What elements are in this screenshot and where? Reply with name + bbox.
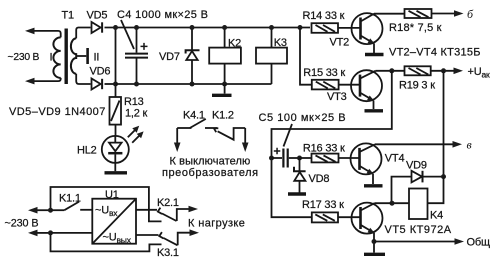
output arrow v xyxy=(453,141,463,148)
switch K2.1 xyxy=(136,208,191,221)
svg-text:VD9: VD9 xyxy=(406,160,427,172)
arrow to converter switch right xyxy=(242,128,249,152)
svg-text:II: II xyxy=(94,52,100,64)
wire top rail xyxy=(105,27,311,29)
resistor R16 xyxy=(312,154,339,163)
svg-text:K1.2: K1.2 xyxy=(212,110,234,122)
svg-text:K3.1: K3.1 xyxy=(157,247,179,259)
node K3 top xyxy=(269,25,274,30)
svg-text:K4.1: K4.1 xyxy=(183,110,205,122)
svg-text:К нагрузке: К нагрузке xyxy=(188,217,245,229)
svg-text:VT4: VT4 xyxy=(385,153,405,165)
ground at VT4 xyxy=(364,184,383,187)
node VT3 collector xyxy=(389,68,394,73)
wire U1 loop top xyxy=(51,187,162,221)
ground at VD8 xyxy=(288,192,306,195)
switch K1.2 xyxy=(205,128,245,140)
ground at VT3 xyxy=(365,109,384,112)
input arrow top left xyxy=(25,28,59,35)
node C4 top xyxy=(134,25,139,30)
svg-text:VT2: VT2 xyxy=(330,36,350,48)
output arrow b xyxy=(432,10,464,17)
svg-text:R19 3 к: R19 3 к xyxy=(399,80,435,92)
transistor VT3 xyxy=(351,70,382,101)
svg-text:U1: U1 xyxy=(105,189,119,201)
svg-text:VT3: VT3 xyxy=(327,91,347,103)
secondary center tap lead xyxy=(76,55,86,57)
node VD5-VD6 top xyxy=(113,25,118,30)
wire VT3 collector row xyxy=(376,70,457,72)
svg-text:преобразователя: преобразователя xyxy=(162,167,259,179)
relay coil K4 xyxy=(392,189,428,220)
relay coil K2 xyxy=(209,28,241,85)
svg-text:VD6: VD6 xyxy=(90,66,111,78)
node VD7 bottom xyxy=(190,82,195,87)
output arrow K2.1 xyxy=(189,206,199,213)
svg-text:VT5 КТ972А: VT5 КТ972А xyxy=(385,224,452,236)
ground at VT2 xyxy=(365,53,384,56)
svg-text:Общ: Общ xyxy=(467,236,490,248)
label C4 pointer line xyxy=(121,20,134,49)
relay coil K3 xyxy=(256,28,287,85)
wire VT2 emitter down xyxy=(373,44,375,54)
wire VT5 emitter down xyxy=(373,233,375,253)
LED arrow 2 xyxy=(132,131,143,142)
node C5 left xyxy=(269,156,274,161)
wire primary top lead xyxy=(59,31,61,38)
LED arrow 1 xyxy=(128,126,139,137)
transformer T1 secondary winding II xyxy=(71,38,76,73)
diode VD9 xyxy=(412,171,444,183)
svg-text:C5 100 мк×25 В: C5 100 мк×25 В xyxy=(259,112,347,124)
resistor R19 xyxy=(405,66,431,75)
svg-text:T1: T1 xyxy=(62,9,75,21)
wire VD6 to junction xyxy=(105,83,116,85)
svg-text:R14 33 к: R14 33 к xyxy=(303,10,345,22)
wire rectifier junction vertical xyxy=(115,28,117,98)
transformer T1 primary winding I xyxy=(53,37,60,78)
output arrow +Uak xyxy=(454,68,464,75)
label C5 pointer line xyxy=(284,124,293,147)
wire U1 loop bottom xyxy=(51,233,162,252)
svg-text:R13: R13 xyxy=(124,96,144,108)
wire primary bottom lead xyxy=(59,78,61,81)
ground at VT5 xyxy=(364,253,385,256)
svg-text:R16 33 к: R16 33 к xyxy=(303,142,345,154)
resistor R17 xyxy=(312,212,338,222)
node K2 bottom xyxy=(222,82,227,87)
ground at HL2 xyxy=(105,171,128,174)
wire branch down to R15 xyxy=(300,28,312,85)
node K2 top xyxy=(222,25,227,30)
switch K3.1 xyxy=(136,232,192,245)
svg-text:C4 1000 мк×25 В: C4 1000 мк×25 В xyxy=(117,9,208,21)
wire mains bottom to U1 xyxy=(51,232,93,234)
transistor VT4 xyxy=(351,143,382,174)
diode VD5 xyxy=(92,22,103,33)
zener VD8 xyxy=(294,158,306,193)
svg-text:K3: K3 xyxy=(274,37,287,49)
LED HL2 xyxy=(102,136,129,171)
node mains bottom xyxy=(48,230,53,235)
switch K4.1 xyxy=(177,119,206,128)
svg-text:~230 В: ~230 В xyxy=(5,217,39,229)
svg-text:б: б xyxy=(467,7,474,21)
svg-text:VD5: VD5 xyxy=(87,9,108,21)
wire R15 to VT3 base xyxy=(339,84,361,86)
svg-text:VD5–VD9 1N4007: VD5–VD9 1N4007 xyxy=(9,106,106,118)
node VD6 junction xyxy=(113,82,118,87)
capacitor C4 xyxy=(125,28,148,85)
node VD9 right xyxy=(441,174,446,179)
node R19 right xyxy=(441,68,446,73)
svg-text:1,2 к: 1,2 к xyxy=(125,107,148,119)
node mains top xyxy=(48,208,53,213)
wire VT3 emitter down xyxy=(373,101,375,110)
wire R14 to VT2 base xyxy=(338,27,361,29)
transformer T1 core xyxy=(64,29,67,85)
arrow to converter switch left xyxy=(174,128,181,152)
svg-text:К выключателю: К выключателю xyxy=(170,156,251,168)
ground at K2 xyxy=(212,84,232,95)
node VD7 top xyxy=(190,25,195,30)
input arrow bottom left xyxy=(25,78,59,85)
resistor R13 xyxy=(110,97,122,136)
input arrow mains top xyxy=(28,207,51,214)
wire VT4 emitter down xyxy=(372,174,374,184)
svg-text:в: в xyxy=(467,138,472,152)
diode VD6 xyxy=(92,79,103,90)
input arrow mains bottom xyxy=(28,230,51,237)
wire VT3 collector to C5 row xyxy=(272,71,392,217)
transistor VT5 xyxy=(352,203,383,234)
wire C5 to R16 xyxy=(300,157,312,159)
wire VD9 row left xyxy=(392,177,412,204)
wire secondary top lead xyxy=(76,28,90,39)
svg-text:R17 33 к: R17 33 к xyxy=(302,199,344,211)
svg-text:K4: K4 xyxy=(430,210,443,222)
wire VT2 collector to R18 xyxy=(374,13,405,15)
center tap terminal bar xyxy=(86,48,89,64)
resistor R14 xyxy=(312,23,339,33)
wire VT4 collector row v xyxy=(375,143,454,145)
node R14 branch xyxy=(298,25,303,30)
node VD8 top xyxy=(297,156,302,161)
svg-text:K2.1: K2.1 xyxy=(157,197,179,209)
wire +U rail down xyxy=(443,71,445,177)
wire bottom rail xyxy=(116,83,272,85)
converter U1 box xyxy=(92,199,136,244)
transistor VT2 xyxy=(352,13,383,44)
svg-text:VD7: VD7 xyxy=(159,51,180,63)
node emitter Obshch xyxy=(372,239,377,244)
output arrow K3.1 xyxy=(190,229,200,236)
svg-text:I: I xyxy=(50,52,53,64)
svg-text:VT2–VT4 КТ315Б: VT2–VT4 КТ315Б xyxy=(389,47,481,59)
wire R16 to VT4 base xyxy=(339,157,360,159)
capacitor C5 xyxy=(272,148,300,168)
svg-text:~230 В: ~230 В xyxy=(8,52,40,63)
node C4 bottom xyxy=(134,82,139,87)
resistor R15 xyxy=(312,80,339,90)
svg-text:K1.1: K1.1 xyxy=(59,193,81,205)
svg-text:VD8: VD8 xyxy=(309,173,330,185)
wire +U rail to K4 xyxy=(428,177,444,204)
switch K1.1 xyxy=(51,202,93,211)
wire R17 to VT5 base xyxy=(338,216,361,218)
output row Obshch xyxy=(374,238,464,245)
wire VT5 collector up xyxy=(375,202,393,204)
wire secondary bottom lead xyxy=(76,74,90,84)
svg-text:R18* 7,5 к: R18* 7,5 к xyxy=(389,22,442,34)
node VT5 collector xyxy=(390,201,395,206)
svg-text:K2: K2 xyxy=(228,37,241,49)
svg-text:R15 33 к: R15 33 к xyxy=(303,67,345,79)
resistor R18 xyxy=(405,9,432,18)
zener VD7 xyxy=(186,28,200,85)
svg-text:HL2: HL2 xyxy=(77,144,97,156)
